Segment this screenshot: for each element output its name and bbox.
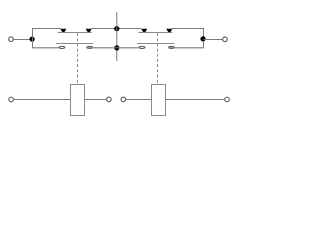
- mechanical link relay X (dashed): [77, 33, 79, 85]
- node B junction dot (top center): [114, 26, 119, 31]
- terminal T2 (top right output): [223, 37, 228, 42]
- wire node D to terminal T2: [204, 39, 223, 41]
- wire bottom rail segment 2: [86, 47, 145, 49]
- node A junction dot: [29, 37, 34, 42]
- terminal T5: [121, 97, 126, 102]
- wire top rail segment 2: [91, 28, 140, 30]
- node D junction dot (right): [200, 36, 205, 41]
- wire terminal T1 to node A: [13, 39, 31, 41]
- make contact X1 dome tip: [59, 46, 65, 48]
- make contact Y1 dome tip: [139, 46, 145, 48]
- break contact Y1 triangle: [141, 29, 147, 32]
- relay coil X rectangle: [71, 85, 85, 116]
- wire top rail segment 3: [172, 28, 204, 30]
- wire terminal T3 to coil X: [14, 99, 71, 101]
- make contact Y bar: [137, 43, 175, 45]
- wire center vertical lead: [116, 12, 118, 61]
- relay contact network schematic: [0, 0, 241, 137]
- terminal T1 (top left input): [9, 37, 14, 42]
- break contact Y2 triangle: [166, 29, 172, 32]
- make contact Y2 dome tip: [169, 46, 175, 48]
- wire top rail segment 1: [32, 28, 60, 30]
- break contact X bar: [58, 32, 92, 34]
- wire left vertical node A: [32, 28, 34, 48]
- relay coil Y rectangle: [152, 85, 166, 116]
- wire coil Y to terminal T6: [165, 99, 225, 101]
- wire bottom rail segment 3: [168, 47, 204, 49]
- terminal T3 (bottom left): [9, 97, 14, 102]
- break contact Y bar: [138, 32, 172, 34]
- wire terminal T5 to coil Y: [126, 99, 151, 101]
- wire right vertical: [203, 28, 205, 48]
- wire bottom rail segment 1: [32, 47, 65, 49]
- wire coil X to terminal T4: [85, 99, 106, 101]
- mechanical link relay Y (dashed): [157, 33, 159, 85]
- make contact X2 dome tip: [87, 46, 93, 48]
- break contact X2 triangle: [86, 29, 92, 32]
- terminal T6 (bottom right): [225, 97, 230, 102]
- node C junction dot (bottom center): [114, 45, 119, 50]
- terminal T4: [107, 97, 112, 102]
- break contact X1 triangle: [60, 29, 66, 32]
- make contact X bar: [56, 43, 93, 45]
